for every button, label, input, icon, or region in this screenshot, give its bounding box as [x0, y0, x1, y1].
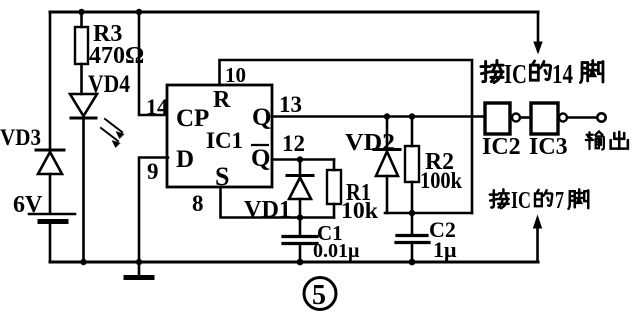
svg-text:VD3: VD3 — [0, 125, 41, 150]
wire arrow to IC pin14 — [534, 12, 542, 53]
resistor R3 — [75, 12, 88, 94]
resistor R1 — [327, 160, 341, 218]
wire to output terminal — [567, 116, 597, 119]
inverter IC2 — [485, 103, 520, 134]
node junction B — [297, 214, 303, 220]
label shu-chu (output) — [586, 131, 628, 149]
output terminal — [597, 113, 605, 121]
svg-text:14: 14 — [552, 59, 573, 89]
svg-text:IC1: IC1 — [206, 128, 243, 153]
node junction VD2 top — [384, 113, 390, 119]
svg-text:6V: 6V — [13, 192, 43, 218]
battery 6V — [29, 214, 75, 262]
wire arrow to IC pin7 — [534, 216, 542, 262]
node junction bottom D — [136, 259, 142, 265]
LED VD4 — [70, 94, 124, 262]
wire pin 10 R line — [220, 60, 473, 213]
wire S pin 8 — [221, 187, 335, 218]
resistor R2 — [405, 117, 419, 214]
svg-text:9: 9 — [147, 159, 159, 184]
svg-text:8: 8 — [192, 191, 204, 216]
svg-text:VD4: VD4 — [88, 71, 130, 98]
wire IC2 to IC3 — [520, 116, 531, 119]
svg-text:7: 7 — [555, 188, 564, 214]
label Qbar — [251, 145, 270, 172]
node junction top R3 — [78, 9, 84, 15]
svg-text:D: D — [176, 146, 194, 173]
svg-text:0.01μ: 0.01μ — [313, 240, 360, 262]
svg-text:10k: 10k — [341, 198, 378, 223]
svg-text:Q: Q — [251, 145, 270, 172]
wire Q line 13 — [272, 115, 485, 118]
wire bottom rail — [50, 261, 538, 264]
node junction C1 bottom — [297, 259, 304, 266]
node junction bottom VD4 — [80, 259, 86, 265]
op-amp U1 IC1 box — [167, 85, 272, 187]
capacitor C1 — [283, 218, 317, 263]
wire CP from rail — [139, 12, 167, 115]
wire top rail — [50, 11, 538, 14]
label jie-IC-de-14-jiao (connect to IC pin 14) — [481, 59, 603, 89]
diode VD2 — [374, 117, 400, 214]
svg-text:Q: Q — [252, 104, 271, 131]
node junction C2 bottom — [409, 259, 416, 266]
wire Qbar line 12 — [272, 158, 334, 161]
svg-text:IC: IC — [511, 188, 531, 214]
svg-text:CP: CP — [176, 105, 209, 132]
inverter IC3 — [531, 103, 567, 134]
svg-text:100k: 100k — [420, 168, 462, 193]
svg-text:IC3: IC3 — [529, 134, 568, 160]
svg-text:VD1: VD1 — [244, 197, 291, 223]
svg-text:IC: IC — [504, 59, 527, 89]
ground — [126, 262, 152, 278]
wire node A — [385, 212, 472, 215]
svg-text:470Ω: 470Ω — [89, 43, 144, 69]
svg-text:VD2: VD2 — [345, 130, 395, 156]
svg-text:1μ: 1μ — [433, 237, 457, 262]
svg-text:R: R — [213, 87, 231, 113]
wire D to ground — [139, 158, 168, 263]
svg-text:10: 10 — [225, 63, 246, 87]
diode VD3 — [36, 150, 64, 213]
svg-text:S: S — [215, 162, 229, 191]
svg-text:12: 12 — [282, 131, 305, 156]
svg-text:13: 13 — [279, 92, 302, 117]
node junction top CP — [136, 9, 142, 15]
svg-text:14: 14 — [146, 94, 168, 119]
node junction VD1 top — [297, 156, 303, 162]
capacitor C2 — [396, 213, 429, 262]
node junction A — [409, 210, 415, 216]
svg-text:IC2: IC2 — [482, 134, 521, 160]
svg-text:5: 5 — [312, 280, 326, 311]
wire left branch (battery branch) — [49, 12, 52, 150]
diode VD1 — [287, 160, 313, 218]
node junction R2 top — [409, 113, 415, 119]
label jie-IC-de-7-jiao (connect to IC pin 7) — [490, 188, 588, 214]
figure number circle 5 — [304, 278, 336, 310]
